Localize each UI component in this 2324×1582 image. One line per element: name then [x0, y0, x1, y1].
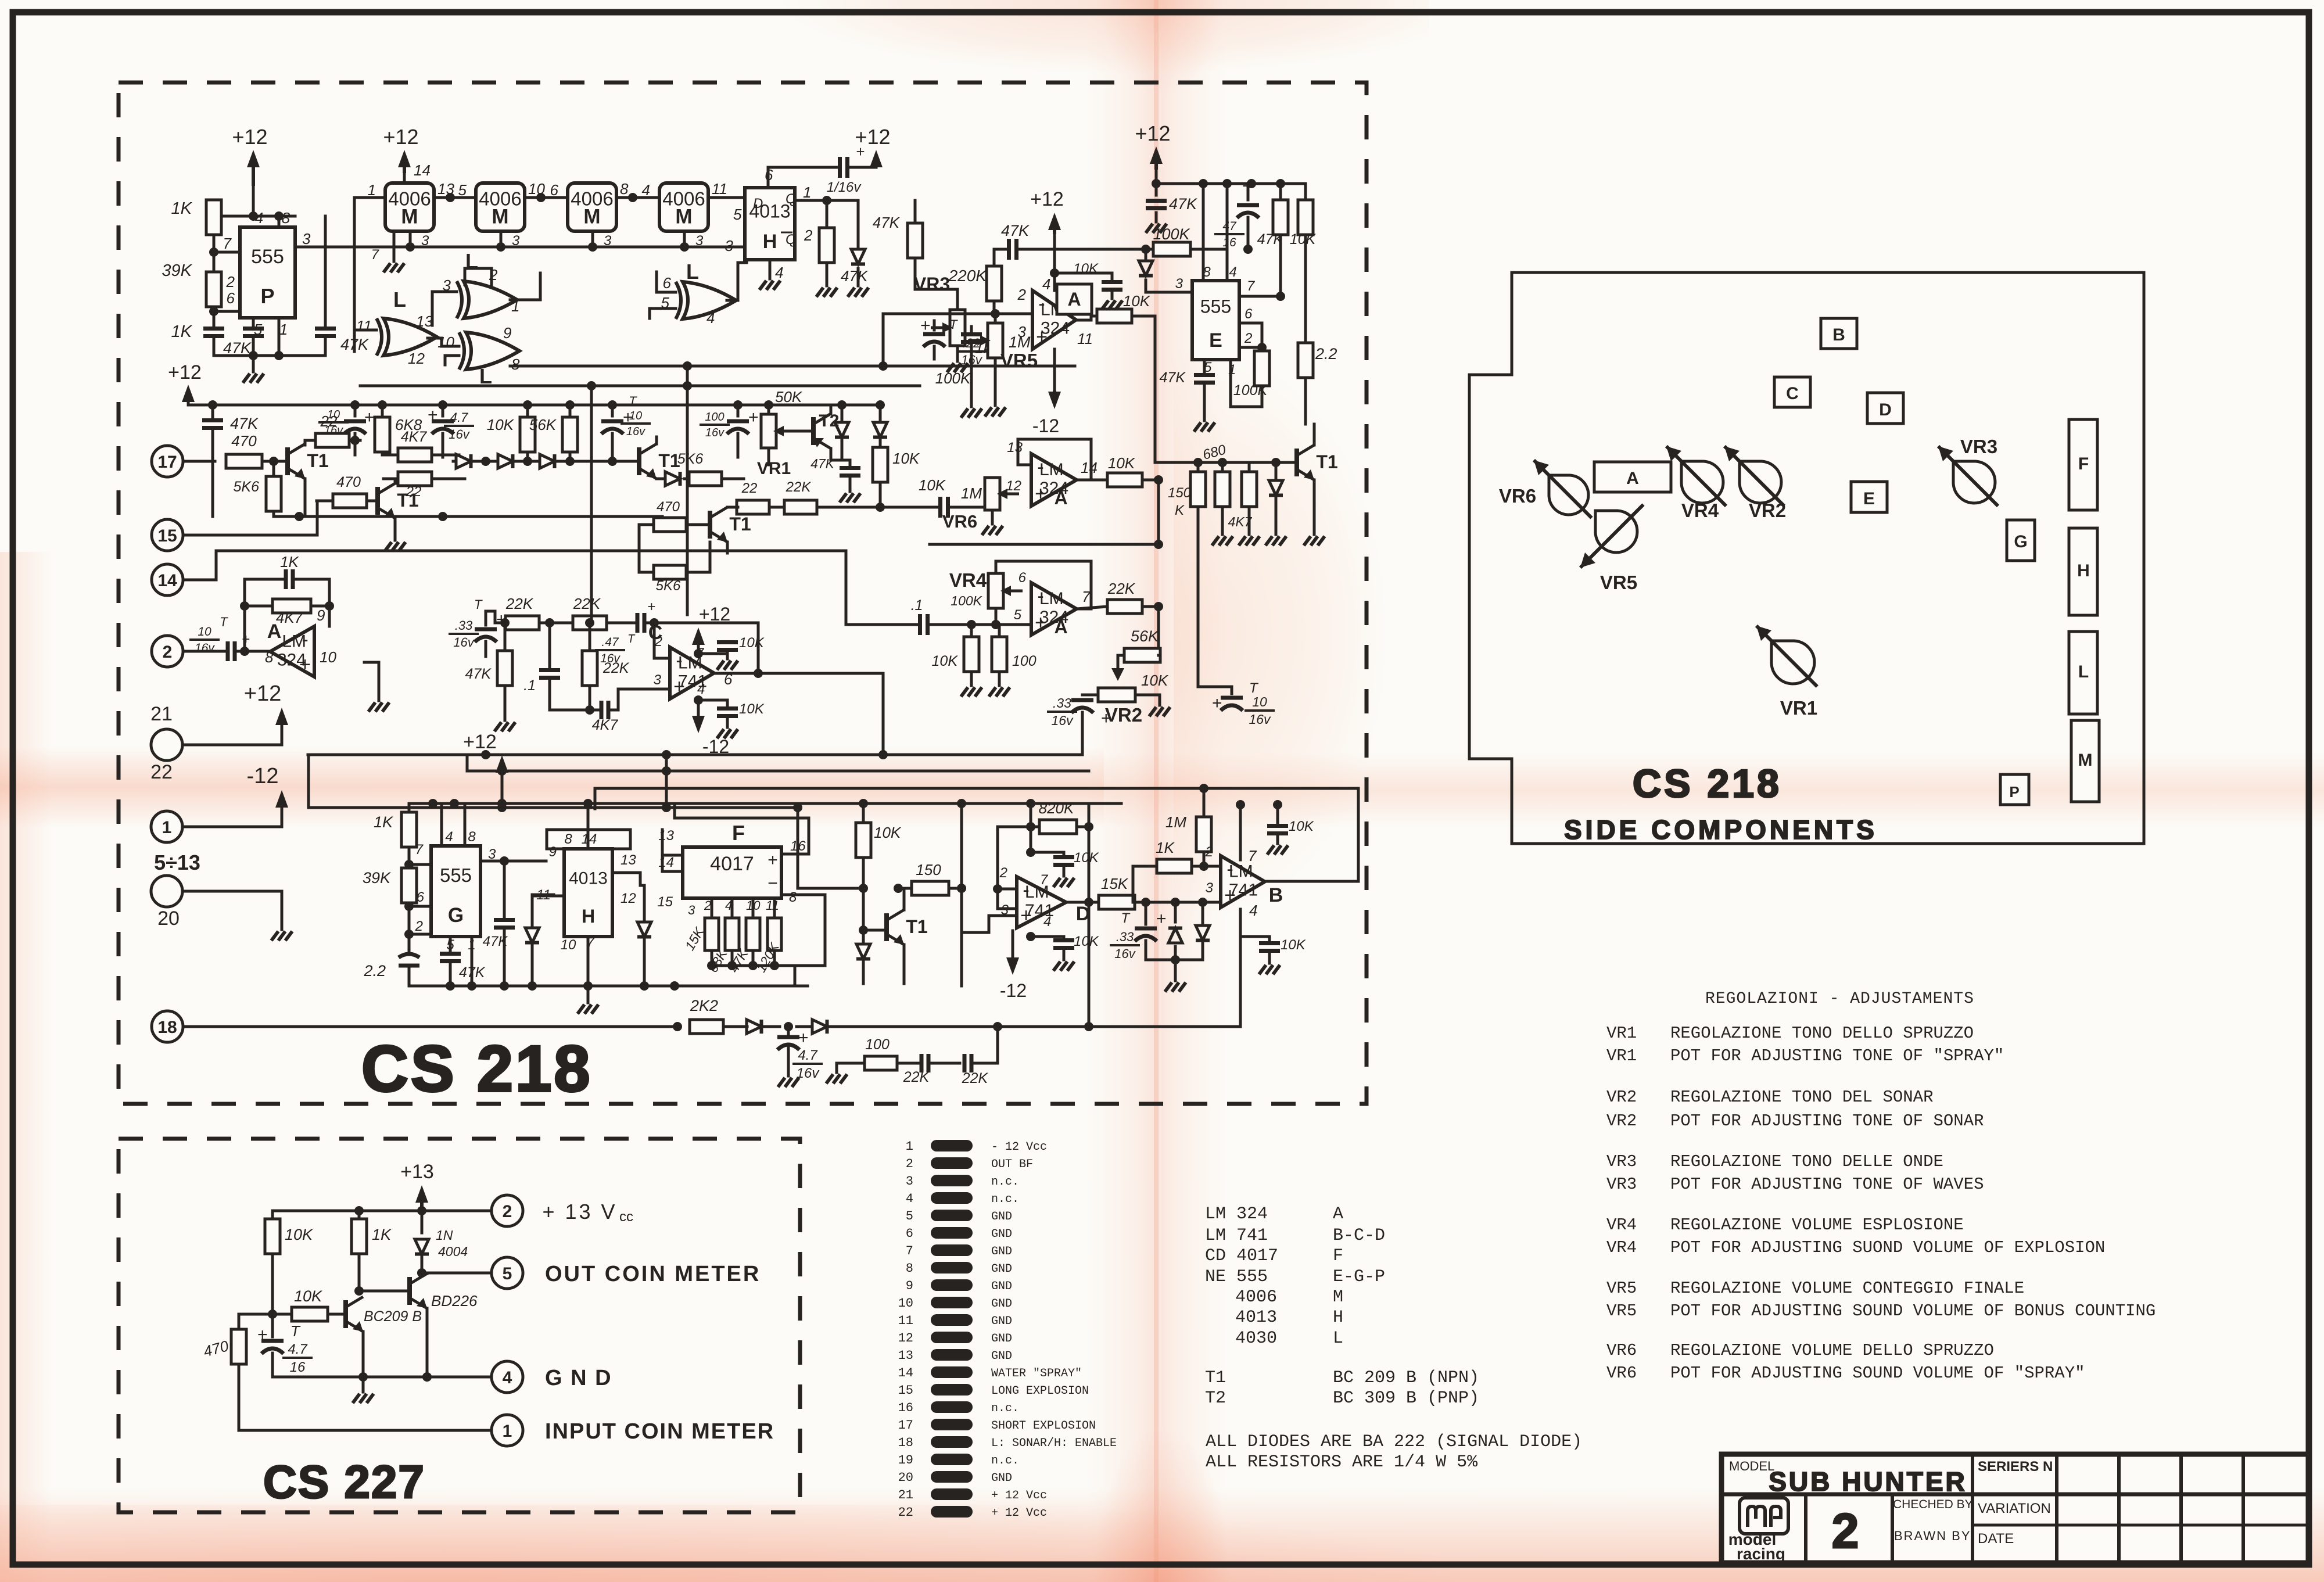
svg-text:8: 8 [511, 356, 520, 373]
svg-text:3: 3 [302, 230, 311, 247]
parts list row 4013 [1235, 1308, 1343, 1328]
svg-text:n.c.: n.c. [991, 1402, 1019, 1415]
-12 arrow (pin 1) [247, 764, 288, 808]
svg-text:D: D [753, 196, 763, 211]
pin label 4 (G) [445, 829, 453, 845]
diode up (B in) [1168, 902, 1182, 960]
transistor T1 (E region) [1297, 445, 1338, 480]
svg-text:7: 7 [1248, 847, 1257, 864]
wire XOR L4 output to 4013 [727, 263, 747, 300]
svg-text:K: K [1175, 503, 1185, 518]
connector list pin 16 bar [898, 1401, 1019, 1415]
svg-text:M: M [1333, 1287, 1343, 1307]
pin label 12 (H bot) [621, 891, 636, 906]
svg-text:19: 19 [898, 1453, 913, 1468]
svg-text:+12: +12 [232, 125, 267, 149]
connector pin 1 (CS227) [492, 1415, 523, 1446]
pin label 13 (4006 #1) [437, 180, 454, 198]
label INPUT COIN METER [545, 1419, 774, 1444]
title block vertical sheet cell [1891, 1494, 1894, 1563]
connector list pin 5 bar [906, 1209, 1012, 1224]
svg-text:GND: GND [991, 1262, 1012, 1276]
svg-text:18: 18 [898, 1436, 913, 1450]
wire XOR L3 output bus y630 [510, 361, 1075, 371]
svg-text:12: 12 [408, 350, 425, 367]
svg-text:4: 4 [503, 1368, 512, 1387]
svg-text:22K: 22K [602, 660, 630, 676]
svg-text:10K: 10K [1141, 672, 1169, 689]
svg-text:10: 10 [320, 648, 336, 666]
logo mr box [1740, 1498, 1788, 1534]
wire H pin11 left [532, 895, 564, 898]
resistor 22K (A3 out) [1077, 580, 1163, 614]
resistor 470 (pin17) [226, 432, 288, 468]
capacitor .1 (A3 in) [846, 551, 976, 635]
wire F pin8 stub [781, 895, 825, 966]
plus/minus (F) [768, 851, 778, 893]
svg-text:CD 4017: CD 4017 [1205, 1246, 1278, 1266]
svg-text:4: 4 [906, 1192, 913, 1206]
svg-text:BC 309 B (PNP): BC 309 B (PNP) [1333, 1389, 1479, 1408]
wire vertical x1655 [957, 803, 966, 986]
connector list pin 11 bar [898, 1314, 1012, 1328]
CS218 dashed boundary box [119, 82, 1367, 1104]
wire A3 feedback loop [996, 561, 1091, 609]
svg-text:+12: +12 [168, 361, 202, 383]
svg-text:5K6: 5K6 [656, 578, 681, 594]
wire D plus input link [962, 916, 1017, 932]
svg-text:GND: GND [991, 1315, 1012, 1328]
adjustment row VR6 [1606, 1341, 1994, 1360]
svg-text:-12: -12 [1000, 980, 1027, 1001]
svg-text:14: 14 [898, 1366, 913, 1380]
pin label 3 (G) [488, 846, 496, 862]
parts list row 4030 [1235, 1329, 1343, 1348]
svg-text:-: - [302, 629, 308, 651]
side pot VR3 [1938, 436, 1998, 506]
svg-text:6: 6 [1018, 570, 1027, 586]
title block vertical logo cell [1804, 1494, 1807, 1563]
svg-text:+: + [1101, 709, 1111, 728]
svg-text:F: F [732, 821, 745, 845]
svg-text:5: 5 [503, 1264, 512, 1283]
svg-text:22K: 22K [903, 1069, 930, 1085]
svg-text:1K: 1K [171, 322, 193, 341]
svg-text:B-C-D: B-C-D [1333, 1226, 1385, 1246]
wire middle +12 rail [188, 400, 885, 410]
connector pin 5 (CS227) [492, 1257, 523, 1289]
svg-text:VR2: VR2 [1606, 1111, 1637, 1131]
svg-text:9: 9 [549, 844, 557, 860]
connector pin 21/22 circle [151, 729, 182, 760]
capacitor 47K (A1 feedback) [994, 222, 1055, 260]
svg-text:1: 1 [503, 1422, 512, 1441]
text +13 (CS227) [400, 1161, 434, 1183]
svg-text:+: + [647, 599, 655, 615]
pin label 4 (4013 bottom) [775, 264, 783, 281]
svg-text:16v: 16v [626, 425, 645, 438]
diode (right of H) [637, 873, 651, 986]
wire pin21 to +12 [182, 725, 282, 745]
svg-text:4: 4 [1229, 264, 1236, 280]
svg-text:1M: 1M [1165, 813, 1186, 831]
resistor 10K horizontal (CS227) [272, 1287, 346, 1321]
svg-text:+: + [1212, 694, 1222, 713]
wire B pin2 node [1204, 865, 1221, 868]
op-amp B LM741 [1205, 844, 1283, 919]
resistor 220K (A1 input) [948, 266, 1002, 314]
connector list pin 22 bar [898, 1505, 1047, 1520]
capacitor 4.7/16v (18 line) [777, 1022, 823, 1087]
pin label 5 (555 P) [254, 321, 263, 338]
wire rail y664 [360, 381, 920, 390]
capacitor 47/16 (E) [1214, 177, 1259, 254]
svg-text:8: 8 [789, 889, 797, 905]
pin label 6 (555 P) [227, 289, 235, 307]
diode (18 line 1) [747, 1020, 780, 1034]
svg-text:10K: 10K [932, 653, 959, 669]
svg-text:6: 6 [227, 289, 235, 307]
svg-text:10: 10 [198, 625, 211, 638]
svg-text:+12: +12 [1135, 121, 1170, 145]
svg-text:ALL RESISTORS ARE 1/4 W 5%: ALL RESISTORS ARE 1/4 W 5% [1206, 1452, 1478, 1472]
resistor 1K (G) [374, 803, 417, 864]
svg-text:13: 13 [658, 828, 674, 844]
svg-text:4.7: 4.7 [450, 410, 468, 425]
wire A-left plus input gnd [364, 662, 389, 712]
svg-text:47K: 47K [465, 666, 492, 682]
svg-text:5: 5 [733, 206, 742, 223]
IC 4017 F [683, 847, 781, 898]
svg-text:POT FOR ADJUSTING SOUND VOLUME: POT FOR ADJUSTING SOUND VOLUME OF "SPRAY… [1670, 1364, 2085, 1383]
svg-text:5: 5 [1014, 607, 1022, 623]
svg-text:T1: T1 [906, 916, 927, 937]
capacitor 10K (C pin7) [698, 635, 765, 670]
capacitor 2.2 (G) [363, 944, 419, 986]
note all resistors [1206, 1452, 1478, 1472]
resistor 10K (E top) [1290, 184, 1317, 343]
svg-text:VR5: VR5 [1000, 350, 1038, 371]
svg-text:SERIERS N: SERIERS N [1978, 1459, 2053, 1475]
svg-text:VR6: VR6 [1499, 485, 1536, 507]
svg-text:2: 2 [1205, 844, 1213, 860]
ground (555 P) [243, 374, 264, 383]
svg-text:L: L [1333, 1329, 1343, 1348]
connector pin 4 (CS227) [492, 1361, 523, 1393]
title block vertical x3754 [2179, 1454, 2183, 1563]
side pot VR6 [1499, 460, 1592, 518]
wire vertical x804 [466, 755, 469, 771]
svg-text:POT FOR ADJUSTING SOUND VOLUME: POT FOR ADJUSTING SOUND VOLUME OF BONUS … [1670, 1301, 2156, 1321]
resistor 10K (CS227) [265, 1219, 313, 1319]
wire 4006 #3 pin3 down [591, 231, 594, 247]
capacitor .33/16 T (C in) [449, 597, 507, 657]
resistor 39K (G) [363, 864, 417, 906]
resistor 5K6 (T1#4 below) [639, 525, 710, 594]
svg-text:POT FOR ADJUSTING TONE OF "SPR: POT FOR ADJUSTING TONE OF "SPRAY" [1670, 1046, 2004, 1066]
svg-text:10: 10 [898, 1296, 913, 1311]
svg-text:470: 470 [202, 1337, 231, 1360]
pin label 8 (H bot) [564, 831, 572, 847]
diode (4013 right) [827, 200, 869, 297]
wire bus y1357 (long) [595, 784, 1357, 809]
svg-text:+: + [257, 1325, 268, 1344]
svg-text:4004: 4004 [438, 1244, 468, 1259]
wire bus y1327 [467, 766, 1089, 776]
wire 100-res spur [912, 1062, 921, 1065]
svg-text:VR1: VR1 [757, 459, 791, 478]
svg-text:DATE: DATE [1978, 1531, 2014, 1547]
parts list row 4006 [1235, 1287, 1343, 1307]
svg-text:A: A [1067, 289, 1081, 310]
svg-text:8: 8 [468, 829, 476, 845]
wire 39K to pins 2,6 [209, 307, 240, 325]
svg-text:4: 4 [1043, 914, 1051, 930]
svg-text:12: 12 [898, 1331, 913, 1346]
svg-text:M: M [401, 206, 418, 228]
wire T1#1 emitter down [304, 479, 307, 516]
svg-text:.33: .33 [1116, 930, 1134, 944]
svg-text:3: 3 [421, 233, 429, 249]
text BRAWN BY [1894, 1529, 1971, 1543]
pin label 4 (555 P) [255, 209, 263, 227]
resistor 47K (C gnd) [465, 618, 515, 731]
wire C pin4 node [698, 699, 727, 702]
resistor 680 (E stack) [1190, 442, 1228, 507]
svg-text:56K: 56K [1131, 627, 1159, 645]
ground (VR5) [985, 407, 1006, 417]
diode (E stack) [1269, 480, 1283, 496]
side component P box [2000, 774, 2029, 805]
svg-text:39K: 39K [162, 261, 192, 280]
pin label 5 (G) [446, 937, 454, 953]
side pot VR5 [1580, 505, 1644, 594]
parts list T2 [1205, 1389, 1479, 1408]
capacitor 10K (C pin4) [717, 700, 765, 738]
svg-text:150: 150 [916, 861, 941, 878]
svg-text:5÷13: 5÷13 [154, 851, 200, 874]
connector list pin 8 bar [906, 1261, 1012, 1276]
text SERIERS N [1978, 1459, 2053, 1475]
capacitor 10K (D pin7) [1026, 848, 1099, 887]
svg-text:VR2: VR2 [1606, 1088, 1637, 1107]
text 20 [157, 907, 180, 930]
pin label 1 (555 P) [279, 321, 288, 338]
pin label 7 (G) [415, 842, 424, 858]
pin label 3 (555 E) [1175, 276, 1183, 292]
adjustment row VR6 [1606, 1364, 2085, 1383]
svg-text:10K: 10K [874, 824, 902, 841]
potentiometer VR3 100K [931, 289, 971, 387]
svg-text:50K: 50K [775, 388, 803, 406]
svg-text:+: + [1035, 483, 1046, 505]
svg-text:10K: 10K [919, 476, 946, 494]
-12 arrow (A1) [1032, 349, 1061, 436]
wire 555 E supply pins up [1203, 184, 1227, 281]
pin label 6 (G) [417, 889, 425, 905]
capacitor 10K (B pin4) [1259, 937, 1306, 974]
+13 arrow (CS227) [415, 1185, 428, 1211]
parts list row NE 555 [1205, 1267, 1385, 1287]
wire T1#4 emitter [726, 542, 729, 553]
svg-text:VR1: VR1 [1606, 1046, 1637, 1066]
connector pin 2 (CS227) [492, 1195, 523, 1226]
pin label 4 (4006 #4) [642, 181, 650, 199]
svg-text:16: 16 [898, 1401, 913, 1415]
svg-text:2: 2 [906, 1157, 913, 1171]
svg-text:1: 1 [162, 818, 172, 837]
svg-text:BC209 B: BC209 B [364, 1308, 422, 1325]
svg-text:18: 18 [157, 1018, 177, 1037]
svg-text:10K: 10K [739, 635, 765, 651]
connector list pin 2 bar [906, 1157, 1033, 1171]
svg-text:A: A [1054, 487, 1067, 508]
svg-text:11: 11 [356, 317, 372, 335]
IC 4006 M #4 [659, 183, 708, 231]
svg-text:16v: 16v [1051, 713, 1074, 728]
svg-text:P: P [2009, 783, 2019, 801]
wire bottom bus y1697 [409, 981, 808, 991]
svg-text:REGOLAZIONE TONO DEL SONAR: REGOLAZIONE TONO DEL SONAR [1670, 1088, 1933, 1107]
svg-text:T1: T1 [1316, 451, 1337, 472]
svg-text:P: P [260, 284, 274, 308]
svg-text:100K: 100K [935, 370, 971, 387]
svg-text:GND: GND [991, 1297, 1012, 1311]
wire pin1 (CS227) [239, 1429, 492, 1432]
svg-text:10K: 10K [739, 701, 765, 717]
svg-text:1N: 1N [436, 1228, 453, 1243]
svg-text:GND: GND [991, 1472, 1012, 1485]
svg-text:12: 12 [1006, 478, 1021, 494]
connector pin 14 [152, 564, 183, 596]
svg-text:7: 7 [906, 1244, 913, 1258]
wire 4006 1-2 link [434, 193, 476, 202]
+12 arrow (C) [692, 604, 730, 658]
svg-text:VR4: VR4 [1606, 1238, 1637, 1257]
diode (E pin3 input) [1139, 245, 1192, 292]
svg-text:47K: 47K [841, 267, 869, 285]
svg-text:-: - [1037, 585, 1043, 607]
wire 4006 #4 pin3 down [683, 231, 686, 247]
svg-text:47K: 47K [230, 415, 259, 432]
svg-text:2: 2 [999, 865, 1007, 881]
+12 arrow (middle rail) [168, 361, 202, 405]
text 21 [150, 703, 173, 725]
wire A2 feedback loop [1018, 439, 1091, 480]
+12 arrow (A1) [1030, 188, 1064, 290]
wires E stack tops [1155, 458, 1281, 480]
capacitor 47K (rail left) [202, 405, 259, 516]
wire XOR L1 pin3 input [432, 292, 457, 302]
svg-text:1: 1 [279, 321, 288, 338]
wire CS227 gnd bus [272, 1372, 492, 1382]
svg-text:8: 8 [906, 1261, 913, 1276]
svg-text:-12: -12 [1032, 415, 1059, 436]
svg-text:GND: GND [991, 1210, 1012, 1224]
capacitor 10/16 T (rail) [318, 405, 375, 455]
wire G pin3 out [480, 860, 546, 863]
svg-text:REGOLAZIONE VOLUME ESPLOSIONE: REGOLAZIONE VOLUME ESPLOSIONE [1670, 1215, 1964, 1235]
svg-text:VR2: VR2 [1749, 500, 1786, 521]
wire vertical x1018 [590, 386, 593, 623]
transistor T2 (PNP) [797, 407, 840, 459]
IC 4006 M #3 [568, 183, 616, 231]
svg-text:4: 4 [775, 264, 783, 281]
svg-text:T1: T1 [729, 514, 751, 534]
wire pin1 to -12 [182, 808, 282, 827]
svg-text:4: 4 [706, 309, 715, 327]
connector pin 18 [152, 1011, 183, 1042]
capacitor 47K (E +12) [1146, 184, 1197, 233]
svg-text:E: E [1209, 329, 1222, 351]
+12 supply arrow (E region) [1135, 121, 1170, 184]
resistor 4K7 (row) [382, 429, 459, 462]
pin label 11 (4006 #4) [712, 180, 727, 198]
wire A1 fb bus to E region [1055, 248, 1153, 251]
title block vertical x3540 [2055, 1454, 2058, 1563]
svg-text:2: 2 [804, 227, 813, 244]
svg-text:3: 3 [688, 903, 695, 917]
svg-text:T1: T1 [307, 450, 328, 471]
pin label 2 (555 E) [1244, 331, 1252, 346]
resistor 22 (T1#4 row) [737, 480, 769, 514]
svg-text:22K: 22K [962, 1070, 989, 1086]
svg-text:11: 11 [1077, 330, 1093, 347]
svg-text:G: G [2014, 532, 2027, 551]
svg-text:POT FOR ADJUSTING TONE OF WAVE: POT FOR ADJUSTING TONE OF WAVES [1670, 1175, 1984, 1194]
wire G supply pins [442, 803, 465, 846]
wire pin18 long [183, 1022, 682, 1031]
svg-text:LM 324: LM 324 [1205, 1204, 1268, 1224]
svg-text:1: 1 [906, 1139, 913, 1154]
svg-text:7: 7 [371, 247, 380, 263]
ground (E stack 4K7) [1212, 507, 1233, 546]
svg-text:C: C [1786, 384, 1799, 403]
svg-text:47: 47 [1222, 220, 1237, 233]
wire 4006#1 input drop [354, 198, 385, 351]
ground (H pin7) [578, 937, 598, 1014]
svg-text:16v: 16v [449, 427, 470, 442]
connector pin 17 [152, 446, 183, 477]
resistor 100 (A3 gnd) [989, 627, 1037, 697]
svg-text:4: 4 [1249, 902, 1257, 919]
svg-text:10: 10 [1252, 694, 1267, 709]
resistors under 4017 F [705, 898, 781, 970]
svg-text:4006: 4006 [1235, 1287, 1277, 1307]
resistor 22K b (C) [573, 595, 637, 630]
pin label 1 (4013) [803, 184, 811, 201]
IC 555 G timer [431, 846, 480, 937]
svg-text:100K: 100K [1153, 225, 1190, 243]
svg-text:47K: 47K [1001, 222, 1030, 239]
paper fold tint: left edge [0, 552, 52, 1582]
resistor 150K (E stack left label) [1168, 485, 1192, 518]
capacitor 22K b (18 area) [962, 1022, 1002, 1086]
svg-text:10K: 10K [1074, 934, 1099, 949]
wire XOR L1 output [510, 273, 540, 300]
CS227 dashed boundary box [119, 1139, 800, 1512]
connector list pin 17 bar [898, 1418, 1096, 1433]
label F (4017) [732, 821, 745, 845]
wire bus y889 [274, 512, 662, 521]
side pot VR2 [1724, 446, 1786, 521]
svg-text:BD226: BD226 [431, 1292, 478, 1310]
svg-text:POT FOR ADJUSTING TONE OF SONA: POT FOR ADJUSTING TONE OF SONAR [1670, 1111, 1984, 1131]
svg-text:16: 16 [1222, 236, 1236, 249]
wire BD226 base link [354, 1286, 410, 1296]
svg-text:M: M [492, 206, 508, 228]
svg-text:2: 2 [704, 898, 711, 913]
